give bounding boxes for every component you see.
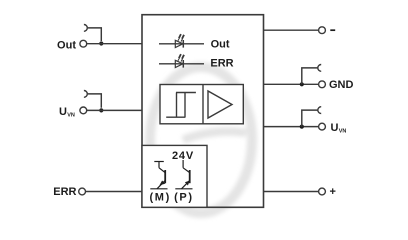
svg-text:VN: VN xyxy=(67,112,75,118)
wire: Out to box xyxy=(87,43,143,45)
transistor Q1 (M) xyxy=(150,162,167,189)
amplifier triangle xyxy=(208,91,232,118)
terminal Uvn circle xyxy=(80,107,87,114)
terminal Uvn bridge contact arc xyxy=(84,91,87,98)
svg-text:VN: VN xyxy=(339,128,347,134)
junction dot Uvn xyxy=(99,108,103,112)
junction dot GND xyxy=(300,82,304,86)
terminal plus circle xyxy=(319,188,326,195)
junction dot Uvn right xyxy=(300,125,304,129)
terminal GND circle xyxy=(319,81,326,88)
wire: Out bridge L xyxy=(88,28,102,41)
junction dot Out xyxy=(99,41,103,45)
terminal ERR circle xyxy=(79,188,86,195)
wire: ERR to box xyxy=(85,191,142,193)
transistor Q2 (P) xyxy=(175,160,192,189)
wire: Uvn bridge L xyxy=(88,94,102,108)
LED D2 ERR xyxy=(159,54,204,68)
terminal Uvn right bridge contact arc xyxy=(318,107,321,114)
svg-text:Out: Out xyxy=(57,40,76,52)
svg-text:ERR: ERR xyxy=(53,186,76,198)
svg-text:U: U xyxy=(59,106,67,118)
wire: box to plus terminal xyxy=(264,191,319,193)
inner 24V output-stage box xyxy=(142,145,207,207)
svg-text:(P): (P) xyxy=(174,191,193,203)
main module box xyxy=(142,15,264,208)
terminal Out circle xyxy=(80,40,87,47)
wire: GND bridge L xyxy=(302,68,318,84)
wire: box to GND terminal xyxy=(264,83,319,85)
svg-text:(M): (M) xyxy=(150,191,171,203)
label minus xyxy=(330,29,335,31)
block divider xyxy=(202,85,204,124)
svg-text:U: U xyxy=(331,122,339,134)
terminal minus circle xyxy=(319,27,326,34)
wire: Uvn right bridge L xyxy=(302,110,318,127)
svg-text:GND: GND xyxy=(329,79,354,91)
terminal Out bridge contact arc xyxy=(84,25,87,32)
threshold (hysteresis step) symbol xyxy=(166,93,196,118)
LED D1 Out xyxy=(159,34,204,48)
svg-text:+: + xyxy=(330,186,336,198)
terminal GND bridge contact arc xyxy=(318,65,321,72)
svg-text:Out: Out xyxy=(211,38,230,50)
watermark (ghost logo) xyxy=(150,67,252,213)
wire: box to minus terminal xyxy=(264,29,319,31)
terminal Uvn right circle xyxy=(319,123,326,130)
wire: Uvn to box xyxy=(87,109,143,111)
wire: box to Uvn right terminal xyxy=(264,126,319,128)
svg-text:ERR: ERR xyxy=(210,57,233,69)
threshold/amplifier function block xyxy=(160,85,243,124)
